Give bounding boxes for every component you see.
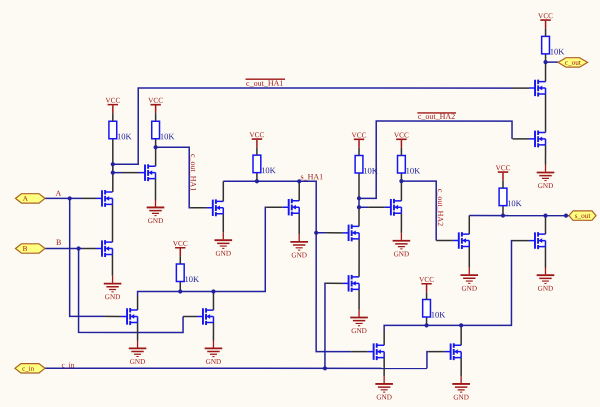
wire node nor_AB: [138, 207, 267, 296]
pin Q7 gate: [183, 315, 197, 317]
pin R3 bottom: [256, 173, 258, 182]
junction nand_AB Q3 tap: [111, 171, 115, 175]
junction nand_AB at R1: [111, 162, 115, 166]
pin VCC9 stem: [545, 29, 547, 37]
junction s_out at R8: [501, 213, 505, 217]
svg-text:VCC: VCC: [496, 163, 511, 172]
svg-text:10K: 10K: [406, 166, 422, 176]
svg-text:GND: GND: [215, 250, 231, 258]
transistor Q11 (NOR2, gate s_HA1): [368, 343, 385, 360]
junction nand_HA2 at R5: [357, 196, 361, 200]
svg-text:GND: GND: [376, 393, 392, 401]
ground GND12: [452, 376, 470, 401]
svg-text:GND: GND: [453, 393, 469, 401]
junction nand_HA2 Q10 tap: [357, 205, 361, 209]
pin Q6 gate: [105, 315, 121, 317]
transistor Q2 (gate B): [96, 240, 113, 257]
pin Q7 source: [212, 322, 214, 340]
wire node s_out: [469, 215, 569, 217]
pin Q9 source: [358, 289, 360, 309]
ground GND2: [104, 276, 122, 301]
power VCC VCC9: [538, 11, 553, 29]
svg-text:GND: GND: [351, 327, 367, 335]
svg-text:c_in: c_in: [61, 360, 74, 369]
pin Q5 drain: [298, 181, 300, 201]
junction nor_HA2 at Q12: [459, 323, 463, 327]
ground GND13: [537, 165, 555, 190]
svg-text:c_out_HA1: c_out_HA1: [246, 79, 283, 88]
pin R6 bottom: [400, 173, 402, 181]
junction s_HA1 Q8 tap: [314, 231, 318, 235]
wire nand_HA2 between taps: [359, 198, 368, 207]
pin Q1 source to Q2 drain: [111, 204, 113, 242]
pin Q5 source: [298, 213, 300, 234]
pin Q11 gate: [351, 351, 368, 353]
svg-text:GND: GND: [105, 293, 121, 301]
power VCC VCC3: [249, 130, 264, 148]
pin R9 bottom: [545, 54, 547, 62]
pin Q2 gate: [82, 248, 96, 250]
svg-text:B: B: [23, 245, 28, 253]
pin R4 bottom: [179, 281, 181, 291]
ground GND3: [214, 232, 232, 257]
power VCC VCC8: [496, 163, 511, 181]
wire nand_AB between taps: [113, 164, 123, 172]
svg-text:GND: GND: [291, 251, 307, 259]
resistor R7 10K: [423, 300, 447, 320]
ground GND6: [350, 310, 368, 335]
svg-text:c_out_HA1: c_out_HA1: [189, 154, 198, 191]
net label A: [56, 189, 62, 198]
junction c_out_HA2 at R6: [399, 179, 403, 183]
ground GND5: [393, 233, 411, 258]
pin Q15 source to Q16 drain: [545, 94, 547, 132]
pin Q11 source: [383, 358, 385, 376]
junction c_in: [323, 366, 327, 370]
svg-text:10K: 10K: [507, 198, 523, 208]
port A: [16, 194, 46, 203]
pin VCC1 stem: [112, 113, 114, 121]
wire B input: [45, 248, 82, 250]
svg-text:VCC: VCC: [394, 130, 409, 139]
pin R7 bottom: [426, 317, 428, 325]
net label s_HA1: [301, 172, 324, 181]
pin Q15 drain: [545, 62, 547, 81]
junction s_HA1 at Q5: [297, 179, 301, 183]
svg-text:VCC: VCC: [538, 11, 553, 20]
pin Q10 gate: [368, 206, 385, 208]
pin Q14 gate: [512, 240, 529, 242]
pin Q14 source: [544, 247, 546, 268]
pin Q1 gate: [83, 197, 97, 199]
wire node c_out_HA2 to Q13 gate: [401, 181, 436, 240]
wire s_HA1 tap to Q8 gate: [316, 232, 326, 234]
junction s_out port: [564, 213, 568, 217]
svg-text:VCC: VCC: [419, 275, 434, 284]
wire node c_out: [546, 61, 559, 63]
transistor Q15 (gate c_out_HA1 bar): [529, 80, 546, 97]
svg-text:GND: GND: [130, 358, 146, 366]
pin Q12 drain: [460, 325, 462, 345]
ground GND11: [375, 376, 393, 401]
pin Q4 gate: [190, 207, 207, 209]
pin Q10 source: [400, 213, 402, 233]
ground GND7: [129, 340, 147, 365]
pin Q16 source: [545, 145, 547, 165]
svg-text:10K: 10K: [184, 274, 200, 284]
transistor Q1 (gate A): [96, 190, 113, 207]
svg-text:A: A: [56, 189, 62, 198]
svg-text:10K: 10K: [550, 46, 566, 56]
ground GND9: [460, 267, 478, 292]
port c_in: [15, 364, 45, 373]
pin R2 bottom: [155, 139, 157, 167]
transistor Q8 (gate s_HA1): [343, 224, 360, 241]
pin Q6 source: [137, 322, 139, 340]
pin R5 bottom: [358, 173, 360, 198]
power VCC VCC4: [173, 239, 188, 257]
transistor Q5 (gate nor_AB): [283, 199, 300, 216]
wire node nor_HA2: [384, 241, 512, 332]
wire c_in input run: [45, 367, 427, 369]
pin Q13 drain: [468, 216, 470, 235]
svg-text:VCC: VCC: [249, 130, 264, 139]
svg-text:s_HA1: s_HA1: [301, 172, 324, 181]
pin VCC6 stem: [400, 148, 402, 156]
wire node nand_HA2 (c_out_HA2 bar) to Q16 gate: [359, 121, 512, 198]
svg-text:s_out: s_out: [575, 211, 591, 220]
port B: [15, 244, 45, 253]
svg-text:VCC: VCC: [173, 239, 188, 248]
transistor Q16 (gate c_out_HA2 bar): [529, 130, 546, 147]
transistor Q13 (gate c_out_HA2): [453, 232, 470, 249]
pin Q8 source to Q9 drain: [358, 239, 360, 277]
svg-text:c_out: c_out: [565, 58, 581, 67]
wire B to NOR input: [79, 249, 184, 333]
svg-text:GND: GND: [394, 250, 410, 258]
wire c_in up to Q9 gate: [325, 283, 326, 368]
pin VCC7 stem: [426, 292, 428, 299]
svg-text:GND: GND: [538, 285, 554, 293]
resistor R1 10K: [109, 121, 133, 141]
port s_out: [569, 211, 596, 220]
wire node s_HA1: [223, 181, 351, 351]
svg-text:VCC: VCC: [352, 130, 367, 139]
pin Q8 gate: [326, 232, 343, 234]
net label c_out_HA1: [246, 79, 286, 88]
wire A input: [45, 197, 83, 199]
transistor Q9 (gate c_in): [343, 275, 360, 292]
junction s_out at Q14: [543, 213, 547, 217]
transistor Q7 (NOR, gate B): [197, 308, 214, 325]
wire node nand_AB to Q15 gate (c_out_HA1 bar): [113, 88, 513, 164]
svg-text:10K: 10K: [363, 166, 379, 176]
resistor R6 10K: [398, 156, 422, 176]
net label B: [56, 238, 61, 247]
transistor Q3 (inverter, gate nand_AB): [139, 164, 156, 181]
resistor R4 10K: [176, 264, 200, 284]
svg-text:10K: 10K: [261, 165, 277, 175]
wire A to NOR input: [70, 198, 105, 316]
transistor Q10 (inverter HA2): [385, 199, 402, 216]
ground GND4: [290, 234, 308, 259]
pin Q9 gate: [326, 282, 343, 284]
resistor R2 10K: [152, 121, 176, 141]
pin R1 bottom / Q1 drain: [112, 139, 114, 192]
svg-text:GND: GND: [461, 285, 477, 293]
pin Q2 source: [111, 255, 113, 276]
power VCC VCC1: [105, 96, 120, 114]
resistor R5 10K: [355, 156, 379, 176]
pin Q5 gate: [266, 206, 283, 208]
junction B: [76, 246, 80, 250]
pin Q13 gate: [436, 240, 453, 242]
power VCC VCC2: [148, 96, 163, 114]
pin Q4 source: [222, 214, 224, 233]
net label c_out_HA2: [417, 112, 456, 121]
net label c_in: [61, 360, 74, 369]
pin VCC2 stem: [155, 113, 157, 121]
svg-text:10K: 10K: [431, 310, 447, 320]
pin Q3 gate: [123, 172, 140, 174]
svg-text:GND: GND: [206, 358, 222, 366]
pin Q10 drain: [400, 181, 402, 201]
pin VCC8 stem: [502, 181, 504, 189]
junction nor_HA2 at R7: [424, 323, 428, 327]
junction c_out at R9: [543, 60, 547, 64]
svg-text:10K: 10K: [117, 131, 133, 141]
ground GND1: [147, 200, 165, 225]
wire node c_out_HA1 to Q4 gate: [156, 147, 191, 208]
pin Q11 drain: [383, 331, 385, 345]
svg-text:10K: 10K: [160, 131, 176, 141]
junction nor_AB at R4: [178, 289, 182, 293]
pin VCC3 stem: [256, 148, 258, 156]
junction s_HA1 at R3: [255, 179, 259, 183]
power VCC VCC7: [419, 275, 434, 293]
power VCC VCC6: [394, 130, 409, 148]
wire c_in up to Q12 gate: [427, 352, 428, 369]
resistor R9 10K: [542, 36, 566, 56]
pin Q13 source: [468, 247, 470, 268]
svg-text:VCC: VCC: [148, 96, 163, 105]
ground GND10: [537, 267, 555, 292]
svg-text:VCC: VCC: [105, 96, 120, 105]
transistor Q6 (NOR, gate A): [121, 308, 138, 325]
junction nor_AB at Q7: [211, 289, 215, 293]
svg-text:GND: GND: [148, 217, 164, 225]
transistor Q14 (gate nor_HA2): [529, 232, 546, 249]
pin VCC4 stem: [179, 256, 181, 264]
pin VCC5 stem: [358, 148, 360, 156]
pin Q7 drain: [212, 291, 214, 310]
pin Q4 drain: [222, 181, 224, 201]
pin Q16 gate: [513, 138, 530, 140]
pin R8 bottom: [502, 206, 504, 216]
resistor R8 10K: [499, 188, 523, 208]
power VCC VCC5: [352, 130, 367, 148]
transistor Q4 (gate c_out_HA1): [207, 199, 224, 216]
pin Q8 drain: [358, 207, 360, 226]
svg-text:B: B: [56, 238, 61, 247]
svg-text:c_out_HA2: c_out_HA2: [436, 189, 445, 226]
ground GND8: [205, 340, 223, 365]
pin Q12 source: [460, 358, 462, 376]
svg-text:GND: GND: [538, 182, 554, 190]
pin Q12 gate: [428, 351, 445, 353]
junction A: [68, 196, 72, 200]
svg-text:c_in: c_in: [22, 365, 35, 373]
pin Q14 drain: [544, 216, 546, 235]
pin Q6 drain: [137, 296, 139, 310]
svg-text:A: A: [23, 195, 29, 203]
junction c_out_HA1 at R2: [154, 145, 158, 149]
port c_out: [558, 58, 588, 67]
pin Q3 source: [155, 179, 157, 201]
resistor R3 10K: [253, 155, 277, 175]
transistor Q12 (NOR2, gate c_in): [445, 343, 462, 360]
pin Q15 gate: [513, 87, 530, 89]
